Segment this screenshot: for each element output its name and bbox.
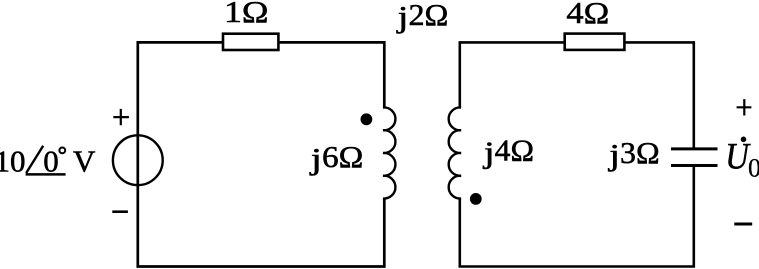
svg-text:6Ω: 6Ω bbox=[322, 139, 363, 174]
svg-text:j: j bbox=[396, 0, 408, 34]
svg-text:V: V bbox=[73, 144, 96, 179]
svg-text:2Ω: 2Ω bbox=[408, 0, 448, 32]
svg-text:j: j bbox=[608, 137, 620, 172]
svg-text:j: j bbox=[309, 141, 322, 176]
svg-text:1Ω: 1Ω bbox=[224, 0, 269, 29]
svg-text:U: U bbox=[725, 137, 751, 178]
svg-text:j: j bbox=[483, 135, 495, 170]
svg-text:10: 10 bbox=[0, 144, 26, 179]
svg-text:3Ω: 3Ω bbox=[620, 135, 660, 170]
svg-text:0: 0 bbox=[43, 144, 59, 179]
svg-text:0: 0 bbox=[748, 154, 759, 183]
svg-text:4Ω: 4Ω bbox=[566, 0, 609, 30]
svg-text:4Ω: 4Ω bbox=[495, 132, 534, 167]
